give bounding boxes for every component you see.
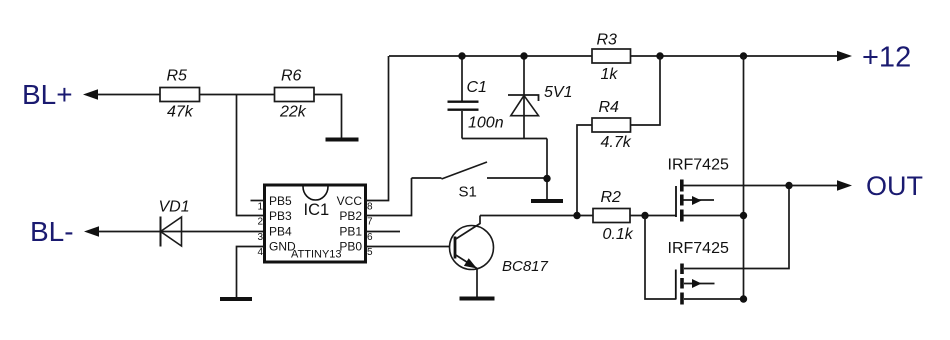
svg-text:8: 8 [367,202,373,213]
svg-text:47k: 47k [167,104,194,121]
pin 1 stub [251,200,265,202]
svg-text:5V1: 5V1 [544,84,572,101]
svg-text:4: 4 [257,247,263,258]
svg-text:PB1: PB1 [339,225,362,239]
svg-text:R4: R4 [599,99,620,116]
wire R4 right leg [631,56,661,125]
wire S1 to ground [546,139,548,200]
wire R3 to +12 [631,55,839,57]
resistor R5 [160,68,200,121]
svg-text:IRF7425: IRF7425 [668,240,729,257]
svg-text:VD1: VD1 [159,198,190,215]
pin 6 stub [366,231,401,233]
svg-text:BC817: BC817 [502,258,549,275]
wire Q1 collector to R2 [480,215,593,217]
wire R4 left leg [577,125,592,216]
node zener top junction [520,52,527,59]
svg-text:22k: 22k [279,104,307,121]
svg-text:PB4: PB4 [269,225,292,239]
svg-text:VCC: VCC [337,194,363,208]
ground [220,297,252,301]
transistor Q3 IRF7425 lower [668,186,790,305]
svg-text:PB5: PB5 [269,194,292,208]
capacitor C1 [448,56,504,139]
svg-text:1k: 1k [601,66,619,83]
node +12 [837,42,911,74]
svg-text:PB2: PB2 [339,209,362,223]
switch S1 [412,162,548,201]
node OUT [837,171,923,201]
transistor Q1 BC817 [450,216,549,297]
node S1-ground junction [543,175,550,182]
svg-text:3: 3 [257,232,263,243]
svg-text:5: 5 [367,247,373,258]
resistor R4 [592,99,632,151]
svg-text:S1: S1 [459,184,477,201]
wire R5 to R6 [200,94,275,96]
resistor R3 [592,31,631,83]
node +12 rail junction [740,52,747,59]
svg-text:BL-: BL- [30,216,74,247]
resistor R2 [593,189,634,243]
wire pin 8 VCC riser [366,56,389,201]
wire gate junction to Q3 gate [645,216,676,300]
svg-text:R2: R2 [601,189,622,206]
svg-text:100n: 100n [468,115,504,132]
node lower source junction [740,295,747,302]
wire +12 rail top [389,55,592,57]
transistor Q2 IRF7425 upper [668,156,790,221]
node R4 top junction [656,52,663,59]
wire BL- to pin PB4 [99,231,265,233]
node OUT junction [785,182,792,189]
svg-text:2: 2 [257,217,263,228]
node R2 left junction [573,212,580,219]
wire pin 7 PB2 to S1 [366,178,412,216]
wire OUT [789,185,838,187]
svg-text:R6: R6 [281,68,302,85]
wire +12 rail vertical [743,56,745,299]
wire BL+ to R5 [96,94,160,96]
diode VD1 [159,198,190,246]
svg-text:6: 6 [367,232,373,243]
svg-text:GND: GND [269,240,296,254]
svg-text:IC1: IC1 [304,201,330,219]
svg-text:R3: R3 [597,31,618,48]
svg-text:1: 1 [257,202,263,213]
wire divider tap to pin PB3 [237,95,265,216]
svg-text:OUT: OUT [866,171,923,201]
resistor R6 [275,68,315,121]
wire pin 5 PB0 to Q1 base [366,246,456,248]
svg-text:PB0: PB0 [339,240,362,254]
svg-text:BL+: BL+ [22,79,73,110]
wire R2 to gates [630,215,676,217]
svg-text:4.7k: 4.7k [601,134,632,151]
svg-text:C1: C1 [467,79,487,96]
svg-text:R5: R5 [167,68,188,85]
ground [531,199,563,203]
svg-text:+12: +12 [862,42,911,74]
wire pin 4 GND to ground [237,247,265,298]
svg-text:0.1k: 0.1k [603,226,634,243]
node BL- [30,216,99,247]
node BL+ [22,79,98,110]
svg-text:7: 7 [367,217,373,228]
wire R6 to ground [314,95,342,138]
svg-text:ATTINY13: ATTINY13 [291,249,342,261]
svg-text:IRF7425: IRF7425 [668,156,729,173]
ground [460,297,495,301]
svg-text:PB3: PB3 [269,209,292,223]
node upper source junction [740,212,747,219]
node C1 top junction [458,52,465,59]
zener diode 5V1 [508,56,572,139]
wire C1/zener bottom to ground [462,138,547,140]
node gate junction [641,212,648,219]
IC IC1 ATTINY13 [257,185,373,262]
ground [326,138,359,142]
